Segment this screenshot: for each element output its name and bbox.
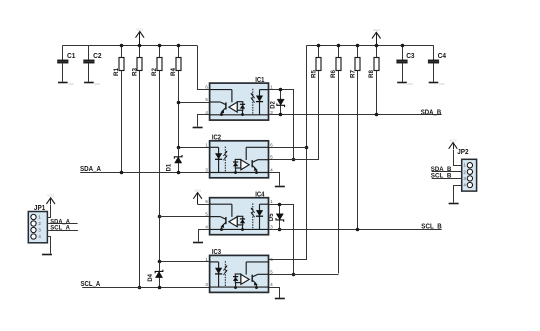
node SCL_B wire [269,229,442,231]
wire JP2 pin2 SDA_B stub [432,171,462,173]
svg-text:SCL_A: SCL_A [81,281,101,288]
ground under JP1 [42,254,52,256]
svg-text:C4: C4 [438,53,446,60]
svg-text:R1: R1 [113,68,120,76]
wire IC1 pin5 from R4 [178,102,209,104]
resistor R8 [368,58,379,79]
svg-text:SDA_B: SDA_B [421,109,441,116]
wire IC2 pin6 [269,147,307,149]
capacitor C2 [83,45,101,86]
wire JP2 pin3 SCL_B stub [432,178,462,180]
wire JP1 pin4 to ground [48,237,51,254]
node SDA_B wire [269,114,442,116]
resistor R5 [311,58,321,79]
connector JP2 [457,149,476,191]
wire JP1 pin3 SCL_A stub [47,230,78,232]
op-amp IC3 [205,247,273,292]
wire R6 vertical to IC3 pin5 [338,71,340,274]
power VCC arrow at IC4 [193,188,202,204]
wire JP1 pin2 SDA_A stub [47,223,77,225]
svg-text:GND: GND [407,82,413,86]
junction D4 anode on SCL_A [158,286,162,290]
svg-text:R6: R6 [330,70,337,78]
connector JP1 [28,205,47,243]
wire IC3 pin5 to R6 [269,274,339,276]
svg-text:GND: GND [94,82,100,86]
wire IC3 pin1 from R2 [159,261,210,263]
ground under IC1 [193,127,203,129]
wire R1 lead [121,45,123,57]
wire IC2 pin1 from R4 [178,147,209,149]
wire R3 lead [139,45,141,57]
svg-text:VCC1: VCC1 [194,188,201,192]
svg-text:R5: R5 [311,70,318,78]
svg-text:SCL_B: SCL_B [431,173,452,180]
wire IC3 pin4 to ground [269,288,280,299]
diode D4 [148,262,163,287]
resistor R1 [113,58,124,77]
svg-text:R7: R7 [349,70,356,78]
ground under IC4 [193,242,203,244]
svg-text:R8: R8 [368,70,375,78]
op-amp IC4 [205,189,273,234]
wire VCC1 top rail [63,45,198,47]
resistor R3 [132,58,142,77]
junction D1 anode on SDA_A [177,171,181,175]
diode D2 [270,88,284,117]
wire R4 vertical [178,71,180,166]
capacitor C3 [396,45,414,86]
junction R8 on SDA_B [376,71,378,115]
wire R8 lead [376,45,378,57]
node SDA_A wire [80,172,209,174]
svg-text:GND: GND [439,82,445,86]
wire R2 lead [159,45,161,57]
resistor R7 [349,58,360,79]
svg-text:R3: R3 [132,68,139,76]
svg-text:VCC2: VCC2 [373,28,380,32]
ground under IC2 [275,186,285,188]
wire IC2 pin5 to R5 [269,71,319,160]
wire rail to IC1 pin6 [198,46,210,90]
svg-text:JP2: JP2 [457,149,468,156]
wire R5 lead [318,45,320,57]
wire R4 lead [178,45,180,57]
wire IC4 pin6 to arrow [198,204,210,206]
wire IC4 pin1 to IC3 pin5 [269,205,294,275]
junction C3 on rail [401,44,405,48]
svg-text:D4: D4 [148,273,154,281]
svg-text:R2: R2 [151,68,158,76]
power VCC1 arrow [136,27,145,45]
svg-text:R4: R4 [170,68,177,76]
wire IC4 pin5 from R2 [159,216,210,218]
diode D1 [166,147,182,172]
wire R7 lead [357,45,359,57]
power arrow at JP1 [46,194,55,204]
wire IC4 pin4 to ground [199,230,210,242]
svg-text:D5: D5 [269,213,275,221]
node SCL_A wire [82,287,209,289]
wire R2 vertical [159,71,161,261]
resistor R4 [170,58,181,77]
op-amp IC2 [205,133,273,178]
wire JP1 pin1 to power [48,205,51,218]
svg-text:D1: D1 [166,163,172,171]
svg-text:C1: C1 [67,53,75,60]
ground under IC3 [275,298,285,300]
svg-text:VCC1: VCC1 [47,194,54,198]
svg-text:D2: D2 [270,101,276,109]
svg-text:C3: C3 [406,53,414,60]
wire VCC2 vertical [269,46,307,260]
wire IC2 pin4 to ground [269,173,280,186]
wire R6 lead [338,45,340,57]
wire R3 vertical [139,71,141,287]
svg-text:JP1: JP1 [34,205,45,212]
resistor R6 [330,58,341,79]
power arrow at JP2 [449,138,458,149]
capacitor C1 [57,45,75,86]
svg-text:VCC1: VCC1 [136,27,143,31]
svg-text:SCL_A: SCL_A [50,225,70,232]
svg-text:SCL_B: SCL_B [421,224,441,231]
svg-text:IC2: IC2 [212,133,221,142]
junction R7 on SCL_B [357,71,359,230]
svg-text:GND: GND [68,82,74,86]
svg-text:C2: C2 [93,53,101,60]
ground under JP2 [449,203,459,205]
svg-text:IC3: IC3 [212,247,221,256]
wire JP2 pin4 to ground [454,186,462,203]
wire IC1 pin4 to ground [198,115,210,127]
svg-text:IC4: IC4 [255,189,264,198]
op-amp IC1 [205,75,273,120]
svg-text:IC1: IC1 [255,75,264,84]
svg-text:VCC2: VCC2 [450,138,457,142]
svg-text:SDA_A: SDA_A [80,166,101,173]
wire VCC2 top rail [306,45,433,47]
wire IC1 pin1 to IC2 pin5 [269,90,294,160]
resistor R2 [151,58,162,77]
wire JP2 pin1 to power [454,150,462,166]
diode D5 [269,203,284,232]
junction R1 on SDA_A [121,71,123,173]
capacitor C4 [428,45,446,86]
power VCC2 arrow [372,28,381,45]
